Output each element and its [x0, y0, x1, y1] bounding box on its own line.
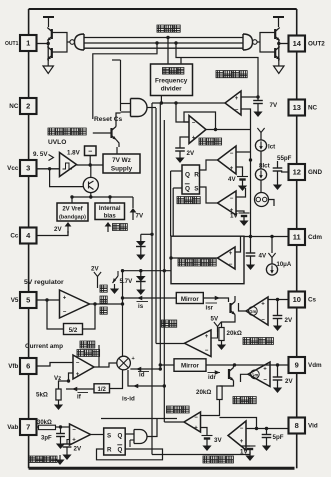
svg-text:divider: divider — [161, 86, 182, 93]
svg-text:Gm: Gm — [251, 373, 258, 378]
svg-text:7: 7 — [26, 423, 30, 432]
transistor Q3 upper (OUT2) — [274, 29, 276, 39]
zener diode stack D1 — [141, 233, 152, 235]
svg-text:Q: Q — [118, 447, 123, 454]
wire pin6 to current amp — [37, 363, 74, 367]
comparator U7 dimming starter — [218, 247, 236, 269]
svg-text:+: + — [229, 251, 233, 257]
bundle wire 1 — [151, 103, 153, 455]
4V reference at Cdm — [249, 235, 252, 238]
svg-text:Vcc: Vcc — [7, 165, 19, 172]
svg-text:−: − — [261, 318, 265, 324]
wire box to pin11 Cdm — [244, 236, 289, 238]
5.7V clamp transistor — [117, 271, 119, 276]
svg-text:1V: 1V — [230, 213, 238, 220]
wire isr to Q6 — [203, 298, 228, 302]
Gm amplifier U12 dimmer — [248, 362, 270, 387]
wire switch output to bundle — [156, 343, 185, 345]
svg-text:2V: 2V — [91, 266, 99, 273]
fault flip-flop SR box — [104, 428, 126, 455]
svg-text:20kΩ: 20kΩ — [196, 389, 211, 396]
svg-text:−: − — [240, 426, 244, 432]
bottom wire selector net — [152, 454, 250, 456]
svg-text:OUT1: OUT1 — [5, 41, 19, 47]
svg-text:Reset Cs: Reset Cs — [94, 116, 123, 123]
node wire 5.7V rail — [123, 270, 171, 272]
NAND gate G1 (OUT1 driver) — [75, 34, 85, 50]
svg-text:2V: 2V — [54, 226, 62, 233]
internal bias box — [95, 203, 125, 220]
Ict current source — [255, 140, 266, 151]
svg-text:Vfb: Vfb — [8, 363, 18, 370]
svg-text:−: − — [63, 310, 67, 316]
wire pass transistor to bias rail — [90, 193, 92, 197]
svg-text:9. 5V: 9. 5V — [33, 151, 48, 158]
svg-text:5kΩ: 5kΩ — [36, 392, 48, 399]
svg-text:2V Vref: 2V Vref — [62, 207, 83, 213]
wire up from Vid node — [220, 418, 257, 429]
1/2 divider box — [94, 384, 110, 393]
svg-text:−: − — [230, 151, 234, 157]
wire pin10 Cs — [268, 299, 289, 301]
wire to internal bias box — [109, 197, 111, 203]
7V reference cap — [253, 100, 263, 102]
2V reference at limiter + input — [180, 137, 189, 148]
svg-text:20kΩ: 20kΩ — [227, 330, 242, 337]
junction bus A to divider — [166, 36, 169, 39]
svg-text:3V: 3V — [214, 437, 222, 444]
pin 12 box (GND) — [289, 164, 306, 180]
limiter minus input wire from node — [152, 102, 225, 104]
node dot OUT2 — [277, 42, 280, 45]
svg-text:+: + — [192, 136, 196, 142]
svg-text:Supply: Supply — [111, 166, 133, 173]
svg-text:−: − — [194, 415, 198, 421]
svg-text:3pF: 3pF — [41, 436, 52, 442]
OUT1 emitter node column — [47, 41, 49, 62]
wire protection + input to 7V — [241, 96, 258, 98]
limiter feedback loop — [184, 112, 216, 130]
AND gate G4 — [134, 430, 147, 444]
2V reference fault — [67, 440, 70, 445]
wire U15 to FF S — [91, 434, 104, 436]
pin 9 box (Vdm) — [289, 357, 306, 373]
wire protection - input down right rail — [241, 109, 251, 237]
svg-text:idr: idr — [208, 374, 216, 381]
label 开关 switch — [162, 320, 169, 327]
OUT1 output stage supply T-bar — [43, 16, 54, 18]
svg-text:Cs: Cs — [308, 297, 317, 304]
wire U7 + input up — [235, 236, 241, 252]
svg-text:R: R — [194, 172, 199, 179]
svg-text:−: − — [72, 428, 76, 434]
transistor Q5 (Reset Cs) — [110, 128, 112, 138]
wire G3 inputs — [121, 103, 131, 105]
pin 7 box (Vab) — [20, 419, 37, 435]
OUT2 emitter node column — [278, 41, 280, 62]
svg-text:Q: Q — [118, 433, 123, 440]
pin 2 box (NC) — [20, 98, 37, 114]
svg-text:−: − — [76, 361, 80, 367]
wire current amp output to multiplier — [94, 363, 117, 367]
divider label 分频器 — [163, 68, 170, 75]
bundle wire 4 — [163, 120, 165, 422]
junction bus B to 7V net — [174, 41, 177, 44]
label 稳压器 vertical — [100, 285, 107, 292]
svg-text:7V: 7V — [136, 213, 144, 220]
svg-text:Internal: Internal — [99, 206, 121, 212]
bus wire A — [84, 37, 243, 39]
svg-text:7V: 7V — [270, 102, 278, 109]
wire Q1 base to NAND1 — [52, 33, 67, 53]
2V reference at Cs — [277, 300, 279, 316]
protection reset comparator U4 保护复位 — [225, 91, 241, 115]
svg-text:Gm: Gm — [249, 309, 256, 314]
wire FF Qbar output left — [173, 187, 182, 189]
wire Gm1 output left — [239, 303, 247, 311]
pin 13 box (NC) — [289, 100, 306, 116]
svg-text:Q: Q — [185, 172, 190, 179]
wire FF Q output left — [171, 170, 182, 172]
svg-text:5pF: 5pF — [273, 434, 284, 441]
svg-text:14: 14 — [293, 39, 302, 48]
wire AND second input — [130, 439, 134, 441]
svg-text:5: 5 — [26, 296, 30, 305]
wire Q3 base to NAND2 — [260, 33, 275, 53]
5pF capacitor — [262, 434, 272, 436]
pin 8 box (Vid) — [289, 418, 306, 434]
8Ict current source — [255, 169, 266, 180]
regulator op-amp U8 — [60, 290, 90, 318]
20k resistor at switch — [222, 315, 236, 328]
multiplier circle — [117, 356, 131, 370]
2V Vref bandgap box — [57, 203, 88, 221]
10uA current source — [270, 235, 273, 238]
wire Mirror2 to pin9 Vdm — [206, 364, 289, 366]
svg-text:Current amp: Current amp — [25, 343, 63, 350]
wire selector output to bundle — [164, 421, 184, 423]
svg-text:NC: NC — [308, 105, 318, 112]
svg-text:Vdm: Vdm — [308, 362, 322, 369]
svg-text:2V: 2V — [285, 378, 293, 385]
svg-text:V5: V5 — [11, 297, 19, 304]
ground arrow OUT1 — [47, 60, 49, 66]
svg-text:4V: 4V — [228, 176, 236, 183]
wire 8Ict to mirror — [260, 180, 262, 192]
svg-text:+: + — [235, 96, 239, 102]
wire id into Mirror2 — [160, 364, 174, 366]
wire regulator output right — [95, 303, 123, 305]
bundle wire 3 — [159, 103, 161, 369]
label 选择器 selector — [167, 406, 174, 413]
selector comparator U13 — [184, 412, 201, 432]
svg-text:−: − — [263, 378, 267, 384]
svg-text:−: − — [230, 196, 234, 202]
svg-text:Frequency: Frequency — [155, 78, 188, 85]
2V reference at Vdm — [277, 365, 279, 377]
5/2 feedback box — [64, 324, 83, 335]
chip boundary top edge — [29, 8, 297, 10]
label UVLO 欠电压锁定 — [48, 128, 55, 135]
20k resistor dimmer — [217, 386, 222, 400]
3V reference — [201, 428, 208, 436]
svg-text:55pF: 55pF — [277, 155, 292, 162]
label 软启动器 soft starter — [243, 338, 250, 345]
svg-text:−: − — [88, 148, 92, 155]
limiter op-amp U3 限制器 — [189, 116, 206, 144]
bus wire C — [84, 47, 243, 49]
zener diode stack D2 7V — [140, 271, 142, 276]
wire U6 - input elbow — [236, 188, 246, 197]
pass transistor circle U2 — [83, 177, 98, 192]
svg-text:S: S — [194, 186, 199, 193]
wire U5 - input to rail — [236, 151, 251, 153]
svg-text:(bandgap): (bandgap) — [59, 215, 86, 221]
Mirror box 2 — [174, 359, 206, 372]
svg-text:−: − — [192, 121, 196, 127]
wire mirror right — [269, 200, 275, 207]
pin 3 box (Vcc) — [20, 160, 37, 176]
wire is into Mirror1 — [123, 297, 177, 299]
pin 4 box (Cc) — [20, 228, 37, 244]
svg-text:2V: 2V — [285, 317, 293, 324]
svg-text:1: 1 — [26, 39, 30, 48]
svg-text:Mirror: Mirror — [181, 363, 199, 370]
pin 1 box (OUT1) — [20, 35, 37, 51]
svg-text:UVLO: UVLO — [48, 139, 66, 146]
bus wire B — [84, 42, 243, 44]
svg-text:+: + — [72, 438, 76, 444]
1V reference — [236, 211, 244, 213]
fault comparator U15 — [70, 424, 91, 445]
wire is-id from multiplier to bundle — [128, 370, 164, 386]
wire to 2V Vref box — [71, 197, 73, 203]
svg-text:5/2: 5/2 — [69, 327, 78, 334]
svg-text:10μA: 10μA — [277, 262, 292, 268]
wire Vcc to pass transistor — [50, 169, 84, 187]
svg-text:OUT2: OUT2 — [308, 41, 325, 48]
svg-text:+: + — [240, 439, 244, 445]
transistor Q6 soft start — [229, 303, 231, 313]
svg-text:+: + — [63, 296, 67, 302]
current amp op-amp U9 — [73, 355, 94, 379]
svg-text:2: 2 — [26, 102, 30, 111]
wire bus A drop to divider — [167, 38, 169, 65]
svg-text:NC: NC — [9, 103, 19, 110]
svg-text:2V: 2V — [74, 446, 82, 453]
input arrow 9.5V chevron — [49, 155, 54, 161]
svg-text:5V regulator: 5V regulator — [24, 279, 64, 286]
frequency divider box — [151, 64, 193, 96]
wire Ict to 8Ict — [260, 151, 262, 169]
svg-text:4V: 4V — [259, 253, 267, 260]
label 异常保护 abnormal protection — [29, 456, 35, 462]
dimming starter box 调光启动器 — [171, 236, 244, 284]
bundle wire 2 — [155, 108, 157, 344]
wire U7 output to box edge — [171, 257, 218, 259]
wire id from multiplier to bundle — [130, 368, 160, 370]
pin 5 box (V5) — [20, 292, 37, 308]
svg-text:6: 6 — [26, 362, 30, 371]
svg-text:1/2: 1/2 — [98, 387, 107, 393]
osc upper comparator U5 — [218, 146, 237, 174]
wire AND output up — [147, 419, 157, 437]
svg-text:4: 4 — [26, 231, 31, 240]
label 保护复位 — [216, 71, 223, 78]
svg-text:Cdm: Cdm — [308, 234, 322, 241]
svg-text:Q: Q — [185, 186, 190, 193]
chip boundary right edge segments — [296, 52, 298, 100]
pin 14 box (OUT2) — [289, 36, 306, 52]
bias label 偏置 with arrow — [107, 225, 109, 232]
pin 10 box (Cs) — [289, 292, 306, 308]
OUT2 output stage supply T-bar — [273, 16, 284, 18]
svg-text:−: − — [235, 108, 239, 114]
svg-text:+: + — [194, 426, 198, 432]
svg-text:1.8V: 1.8V — [67, 150, 81, 157]
svg-text:isr: isr — [206, 305, 214, 312]
node dot OUT1 — [47, 42, 50, 45]
wire 1.8V box to output node — [89, 156, 91, 166]
svg-text:Vab: Vab — [7, 424, 18, 431]
Ict current source arrow — [257, 128, 264, 133]
svg-text:12: 12 — [293, 168, 301, 177]
svg-text:+: + — [132, 356, 135, 362]
wire pin5 to regulator — [37, 299, 60, 301]
svg-text:3: 3 — [26, 164, 30, 173]
svg-text:Ict: Ict — [268, 144, 275, 151]
svg-text:9: 9 — [295, 361, 299, 370]
5k resistor to ground — [59, 381, 69, 389]
wire pin4 to Vref — [37, 231, 69, 236]
transistor Q7 dimmer — [228, 369, 230, 379]
svg-text:+: + — [230, 166, 234, 172]
wire Q7 emitter to 20k resistor — [220, 381, 234, 387]
transistor Q1 upper (OUT1) — [51, 29, 53, 39]
wire to GND pin — [281, 171, 289, 173]
svg-text:5.7V: 5.7V — [120, 278, 134, 285]
7V Wz Supply box — [103, 154, 140, 173]
wire FF Q down left side — [170, 171, 172, 236]
wire divider output down — [160, 96, 162, 104]
wire Q5 emitter to Wz box — [116, 147, 118, 154]
wire multiplier to 1/2 divider — [110, 370, 123, 389]
current mirror circle — [255, 193, 269, 207]
FF Qbar loop to R — [97, 449, 163, 460]
svg-text:13: 13 — [293, 103, 301, 112]
UVLO comparator U1 — [60, 153, 77, 177]
wire pin8 Vid — [246, 428, 289, 430]
Gm amplifier U11 soft start — [246, 297, 268, 325]
svg-text:7V Wz: 7V Wz — [112, 157, 131, 164]
label 无灯保护 no lamp protection — [203, 456, 210, 463]
svg-text:is: is — [138, 303, 144, 310]
wire limiter output right — [216, 129, 251, 131]
label 调光启动器 — [178, 259, 185, 266]
chip boundary left edge segments — [28, 51, 30, 98]
switch comparator U10 — [185, 330, 212, 357]
label 调光器 dimmer — [233, 397, 240, 404]
transistor Q4 lower (OUT2) — [274, 48, 276, 58]
chip boundary bottom edge — [29, 467, 295, 470]
svg-text:if: if — [77, 394, 82, 401]
wire pin3 to UVLO comparator — [37, 168, 60, 170]
no-lamp comparator U14 — [228, 421, 246, 450]
svg-text:Cc: Cc — [10, 233, 19, 240]
label 振荡器 — [177, 197, 184, 204]
ground arrow OUT2 — [278, 60, 280, 66]
wire + input to Vz node — [69, 373, 74, 381]
oscillator flip-flop QR/QS box — [182, 165, 200, 194]
wire FF Q to AND — [125, 433, 134, 435]
wire U6 out to S — [200, 187, 218, 203]
wire bus B to 7V net and divider — [176, 43, 258, 100]
osc lower comparator U6 — [218, 191, 237, 215]
svg-text:11: 11 — [293, 233, 301, 242]
wire 1/2 output to Vz (if) — [66, 388, 94, 390]
svg-text:is-id: is-id — [122, 396, 135, 403]
4V reference — [236, 167, 243, 176]
NAND gate G2 (OUT2 driver) — [243, 34, 253, 50]
svg-text:Mirror: Mirror — [181, 296, 199, 303]
1V reference no-lamp — [242, 445, 251, 447]
svg-text:id: id — [139, 372, 145, 379]
svg-text:S: S — [107, 433, 111, 440]
wire node to pin14 — [279, 43, 289, 45]
label 限制器 — [199, 138, 206, 145]
wire pin1 to node — [37, 43, 49, 45]
wire bus B drop to reset net — [93, 43, 157, 119]
svg-text:10: 10 — [293, 295, 301, 304]
svg-text:bias: bias — [104, 214, 117, 220]
svg-text:8: 8 — [295, 421, 299, 430]
Mirror box 1 — [176, 293, 203, 304]
7V arrow label — [132, 197, 134, 208]
svg-text:−: − — [229, 262, 233, 268]
wire Gm2 output left — [241, 374, 249, 382]
svg-text:5V: 5V — [211, 316, 219, 323]
wire G3 output to bundle — [147, 107, 156, 109]
svg-text:Vid: Vid — [308, 423, 318, 430]
junction bus B — [155, 41, 158, 44]
regulator feedback loop — [83, 304, 96, 329]
wire U5 out to R — [200, 160, 218, 170]
svg-text:+: + — [261, 302, 265, 308]
wire UVLO output to Wz supply — [77, 164, 104, 166]
wire 20k to selector input — [201, 400, 220, 416]
svg-text:GND: GND — [308, 169, 322, 176]
svg-text:+: + — [263, 367, 267, 373]
pin 6 box (Vfb) — [20, 358, 37, 374]
svg-text:2V: 2V — [187, 150, 195, 157]
AND gate G3 — [131, 99, 147, 117]
label 输出级 (output stage) — [157, 25, 164, 32]
pin 11 box (Cdm) — [289, 229, 306, 245]
svg-text:+: + — [205, 334, 209, 340]
svg-text:R: R — [107, 447, 112, 454]
transistor Q2 lower (OUT1) — [51, 48, 53, 58]
vertical rail to multiplier — [122, 271, 124, 357]
svg-text:−: − — [205, 348, 209, 354]
junction on Vcc wire — [48, 167, 51, 170]
svg-text:+: + — [76, 372, 80, 378]
